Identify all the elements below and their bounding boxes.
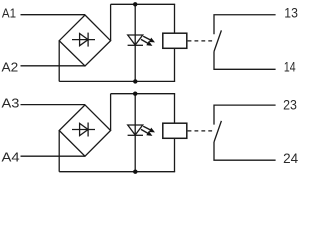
wire A1 (terminal A1 to bridge top corner) <box>21 14 86 16</box>
svg-text:A3: A3 <box>2 96 20 111</box>
LED light emission arrows channel 2 <box>141 126 155 136</box>
wire bridge right corner to top bus <box>110 4 112 40</box>
top bus wire channel 1 <box>111 3 176 5</box>
terminal label A4 <box>2 149 20 164</box>
bottom bus wire channel 1 <box>59 80 175 82</box>
LED branch wire channel 2 <box>134 94 136 172</box>
wire bridge right corner to top bus channel 2 <box>110 94 112 131</box>
svg-text:24: 24 <box>283 151 298 166</box>
mechanical link (dashed) coil to contact <box>188 40 213 42</box>
wire 13 with corner down to fixed contact <box>214 15 276 35</box>
junction node bottom (bus / LED branch) <box>133 79 137 83</box>
svg-text:A4: A4 <box>2 149 20 164</box>
wire A4 (terminal A4 to bridge bottom corner) <box>21 155 85 157</box>
wire 24 with stub up to moving contact pivot <box>214 142 276 160</box>
svg-text:23: 23 <box>283 98 297 113</box>
wire bridge left corner to bottom bus channel 2 <box>58 131 60 172</box>
wire A3 (terminal A3 to bridge top corner) <box>21 104 86 106</box>
mechanical link (dashed) coil to contact channel 2 <box>188 130 213 132</box>
contact blade (normally open) channel 2 <box>214 121 221 142</box>
terminal label 14 <box>284 60 296 75</box>
LED branch wire <box>134 4 136 81</box>
svg-text:A2: A2 <box>2 59 19 74</box>
bottom bus wire channel 2 <box>59 171 175 173</box>
junction node bottom channel 2 <box>133 170 137 174</box>
wire 23 with corner down to fixed contact <box>214 105 276 125</box>
terminal label A1 <box>2 6 16 21</box>
diode inside bridge channel 2 <box>72 123 95 137</box>
junction node top (bus / LED branch) <box>133 2 137 6</box>
LED indicator <box>128 35 143 45</box>
wire 14 with stub up to moving contact pivot <box>214 52 276 70</box>
terminal label A3 <box>2 96 20 111</box>
relay coil branch wire (top bus to coil) <box>174 4 176 33</box>
wire bridge left corner to bottom bus <box>58 41 60 82</box>
svg-text:A1: A1 <box>2 6 16 21</box>
relay coil branch wire (coil to bottom bus) <box>174 48 176 81</box>
LED indicator channel 2 <box>128 125 143 135</box>
relay coil K1 <box>163 33 187 48</box>
contact blade (normally open) <box>214 30 221 51</box>
terminal label 24 <box>283 151 298 166</box>
wire A2 (terminal A2 to bridge bottom corner, crosses left-corner wire) <box>21 65 85 67</box>
relay coil K2 <box>163 123 187 138</box>
svg-text:13: 13 <box>284 6 298 21</box>
top bus wire channel 2 <box>111 93 176 95</box>
relay coil branch wire (coil to bottom bus) channel 2 <box>174 138 176 171</box>
svg-text:14: 14 <box>284 60 296 75</box>
bridge rectifier (diamond) channel 2 <box>59 105 110 156</box>
diode inside bridge <box>72 33 95 47</box>
relay coil branch wire (top bus to coil) channel 2 <box>174 94 176 124</box>
terminal label 13 <box>284 6 298 21</box>
terminal label A2 <box>2 59 19 74</box>
bridge rectifier (diamond) <box>59 15 110 66</box>
LED light emission arrows <box>141 36 155 46</box>
terminal label 23 <box>283 98 297 113</box>
junction node top channel 2 <box>133 92 137 96</box>
